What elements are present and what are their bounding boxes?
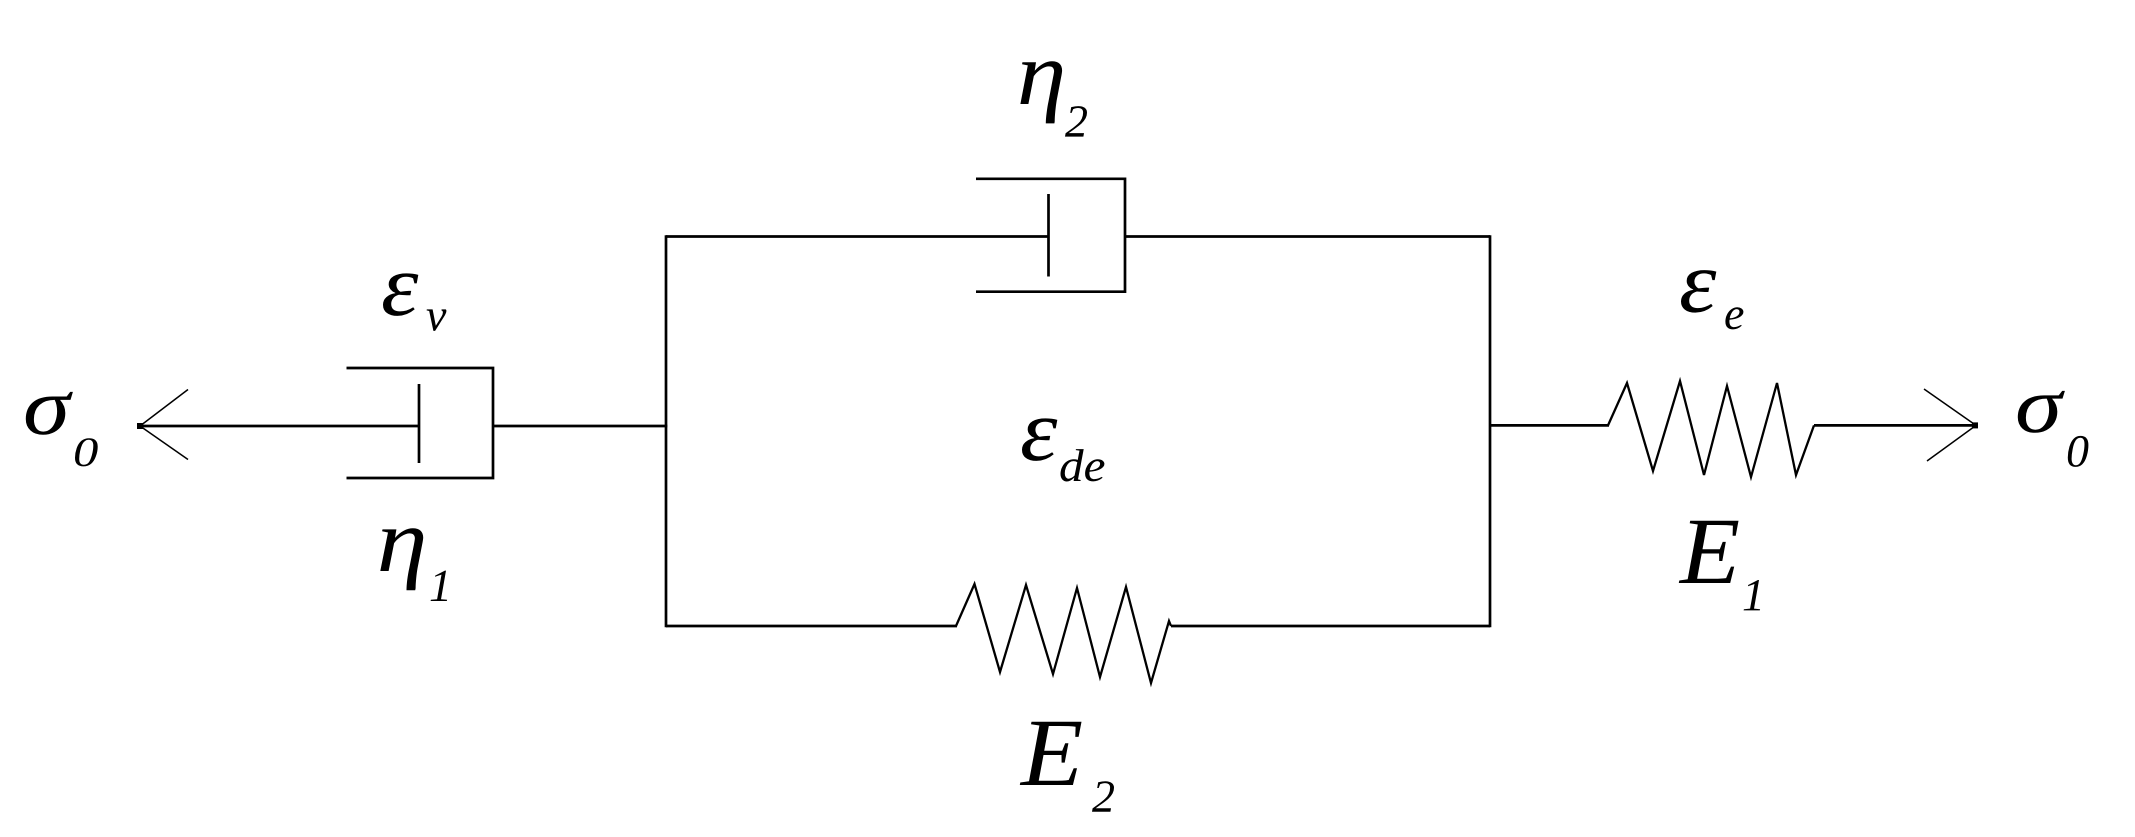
label sigma_0 left: sigma	[26, 392, 73, 435]
label epsilon_v: subscript v	[427, 309, 447, 331]
label E_2: subscript 2	[1092, 781, 1114, 812]
left arrow barb upper	[140, 390, 188, 427]
label eta_2: eta	[1020, 61, 1062, 123]
label E_1: E	[1679, 521, 1739, 583]
label epsilon_de: epsilon	[1022, 418, 1057, 461]
wire from dashpot eta1 to parallel loop	[493, 425, 667, 428]
label E_1: subscript 1	[1744, 580, 1761, 610]
left arrow barb lower	[140, 426, 188, 460]
wire from left arrow to dashpot piston rod	[140, 425, 419, 428]
label sigma_0 right: sigma	[2018, 391, 2065, 433]
label eta_2: subscript 2	[1065, 106, 1087, 137]
spring E1 zigzag	[1608, 381, 1814, 477]
dashpot eta2 cylinder	[976, 179, 1125, 292]
wire: loop top-right segment	[1125, 235, 1490, 238]
dashpot eta2 piston	[1047, 194, 1050, 277]
spring E2 zigzag	[956, 584, 1171, 683]
wire: loop right vertical	[1489, 235, 1492, 627]
label epsilon_e: epsilon	[1681, 270, 1716, 313]
wire: loop bottom-right segment	[1171, 625, 1490, 628]
wire from loop to spring E1	[1490, 424, 1609, 427]
label epsilon_v: epsilon	[383, 273, 418, 316]
node sigma0 left arrow tip dot	[137, 423, 143, 429]
wire: loop top-left segment to piston of eta2	[666, 235, 1049, 238]
node sigma0 right arrow tip dot	[1972, 422, 1978, 428]
label sigma_0 right: subscript 0	[2068, 436, 2089, 467]
label eta_1: subscript 1	[431, 571, 448, 601]
right arrow barb lower	[1927, 425, 1976, 461]
wire: loop left vertical	[665, 235, 668, 627]
label epsilon_de: subscript de	[1061, 449, 1105, 481]
wire: loop bottom-left segment	[666, 625, 957, 628]
label eta_1: eta	[380, 528, 423, 590]
right arrow barb upper	[1924, 389, 1976, 425]
wire from spring E1 to right arrow	[1814, 424, 1976, 427]
label E_2: E	[1020, 722, 1082, 785]
dashpot eta1 piston	[418, 384, 421, 463]
label epsilon_e: subscript e	[1725, 307, 1743, 329]
label sigma_0 left: subscript 0	[75, 438, 98, 466]
dashpot eta1 cylinder	[347, 368, 494, 478]
